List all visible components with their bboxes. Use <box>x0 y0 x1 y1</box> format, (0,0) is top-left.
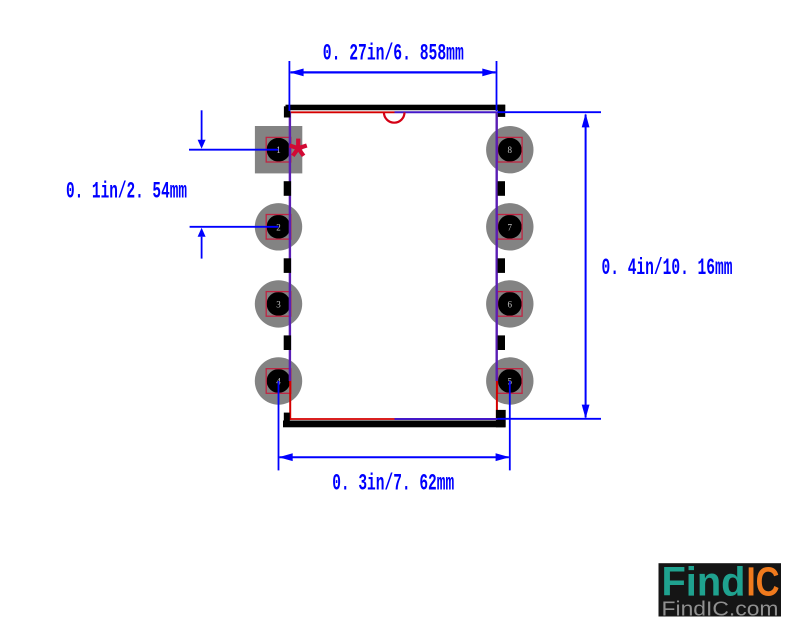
pin1 marker asterisk (red) <box>290 139 307 156</box>
svg-text:6: 6 <box>508 299 513 309</box>
bottom dimension line <box>280 456 509 458</box>
silk bottom-left corner cap <box>284 413 290 427</box>
pad 2 <box>255 203 302 250</box>
svg-text:3: 3 <box>276 299 281 309</box>
bottom dimension extension line left <box>278 381 280 470</box>
right dimension extension line bottom <box>497 418 601 420</box>
bottom dimension right arrow <box>496 453 510 461</box>
silk top-left corner cap <box>284 106 290 117</box>
right dimension extension line top <box>497 111 601 113</box>
pad 5 <box>486 357 533 404</box>
right dimension extension line top (purple over body) <box>395 111 498 113</box>
right dimension top arrow <box>582 113 590 127</box>
pad 8 <box>486 126 533 173</box>
left dimension down arrow <box>198 140 206 149</box>
pad 3 <box>255 280 302 327</box>
bottom dimension extension line right <box>509 381 511 470</box>
top dimension left arrow <box>290 69 304 77</box>
right dimension line <box>585 115 587 418</box>
right edge tick 6-5 <box>498 335 505 350</box>
left dimension line at pin1 <box>189 149 279 151</box>
right edge tick 7-6 <box>498 258 505 273</box>
body outline top edge (red) <box>290 111 395 113</box>
svg-text:0. 1in/2. 54mm: 0. 1in/2. 54mm <box>66 178 187 205</box>
svg-text:8: 8 <box>508 145 513 155</box>
top dimension line <box>291 71 496 73</box>
left edge tick 2-3 <box>284 258 291 273</box>
silk top bar (black) <box>286 105 506 111</box>
svg-text:0. 3in/7. 62mm: 0. 3in/7. 62mm <box>332 471 454 498</box>
svg-text:0. 27in/6. 858mm: 0. 27in/6. 858mm <box>323 41 464 68</box>
left dimension upper leader <box>201 110 203 142</box>
svg-text:FindIC.com: FindIC.com <box>662 598 779 620</box>
left dimension line at pin2 <box>190 226 279 228</box>
pad 6 <box>486 280 533 327</box>
pad 1 (square, pin 1) <box>255 126 302 173</box>
left edge tick 1-2 <box>284 181 291 196</box>
body outline left edge lower (red) <box>289 381 291 420</box>
silk bottom bar (black) <box>283 421 505 428</box>
pad 7 <box>486 203 533 250</box>
pad 4 <box>255 357 302 404</box>
FindIC logo background <box>659 563 782 616</box>
left edge tick 3-4 <box>284 335 291 350</box>
right dimension extension line bottom (purple over body) <box>395 418 498 420</box>
body outline left edge (purple overlap) <box>289 112 291 382</box>
top dimension extension line right <box>496 61 498 111</box>
bottom dimension left arrow <box>279 453 293 461</box>
right dimension bottom arrow <box>582 405 590 419</box>
body outline right edge (purple overlap) <box>496 112 498 382</box>
silk bottom-right corner cap <box>496 410 506 427</box>
svg-text:0. 4in/10. 16mm: 0. 4in/10. 16mm <box>602 255 733 282</box>
left dimension up arrow <box>198 228 206 237</box>
top dimension extension line left <box>288 61 290 111</box>
top dimension right arrow <box>482 69 496 77</box>
silk top-right corner cap <box>498 105 505 117</box>
pin1 notch arc (red) <box>384 112 405 122</box>
svg-text:7: 7 <box>508 222 513 232</box>
body outline bottom edge (red) <box>290 418 395 420</box>
body outline right edge lower (red) <box>496 381 498 420</box>
left dimension lower leader <box>201 237 203 259</box>
right edge tick 8-7 <box>498 181 505 196</box>
